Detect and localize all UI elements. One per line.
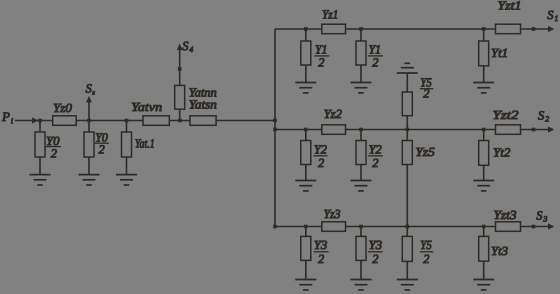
svg-text:Yatvn: Yatvn bbox=[131, 100, 162, 114]
svg-text:S: S bbox=[538, 109, 545, 123]
svg-text:Y3: Y3 bbox=[314, 238, 328, 252]
svg-text:Y2: Y2 bbox=[369, 142, 382, 156]
svg-text:Y3: Y3 bbox=[369, 238, 383, 252]
svg-text:4: 4 bbox=[189, 45, 193, 54]
svg-text:Y2: Y2 bbox=[314, 142, 327, 156]
svg-text:Y5: Y5 bbox=[420, 238, 432, 252]
svg-text:Yzt3: Yzt3 bbox=[494, 208, 517, 222]
svg-text:2: 2 bbox=[99, 142, 105, 156]
svg-text:2: 2 bbox=[423, 86, 429, 100]
svg-text:2: 2 bbox=[51, 147, 57, 161]
svg-text:Yzt2: Yzt2 bbox=[493, 108, 519, 122]
svg-text:1: 1 bbox=[554, 14, 558, 23]
svg-text:2: 2 bbox=[545, 115, 549, 124]
svg-text:Yzt1: Yzt1 bbox=[498, 0, 522, 13]
svg-text:Yat.1: Yat.1 bbox=[135, 137, 155, 151]
svg-text:S: S bbox=[547, 8, 554, 22]
svg-text:Yz0: Yz0 bbox=[53, 101, 73, 115]
svg-text:2: 2 bbox=[372, 56, 378, 70]
svg-text:Yatsn: Yatsn bbox=[189, 98, 217, 112]
svg-text:2: 2 bbox=[423, 252, 429, 266]
svg-text:S: S bbox=[536, 208, 543, 222]
svg-text:2: 2 bbox=[318, 56, 324, 70]
svg-text:Yt1: Yt1 bbox=[491, 46, 508, 60]
svg-text:P: P bbox=[1, 109, 10, 124]
svg-text:3: 3 bbox=[542, 214, 547, 223]
svg-text:Yz5: Yz5 bbox=[415, 145, 435, 159]
svg-text:Yt2: Yt2 bbox=[493, 146, 511, 160]
svg-text:Yz1: Yz1 bbox=[322, 7, 338, 21]
svg-text:Y1: Y1 bbox=[315, 42, 327, 56]
svg-text:Yt3: Yt3 bbox=[491, 244, 508, 258]
svg-text:Yz2: Yz2 bbox=[324, 107, 342, 121]
svg-text:Yz3: Yz3 bbox=[324, 207, 341, 221]
svg-text:2: 2 bbox=[318, 252, 324, 266]
svg-text:2: 2 bbox=[372, 156, 378, 170]
svg-text:2: 2 bbox=[372, 252, 378, 266]
svg-text:Y1: Y1 bbox=[369, 42, 381, 56]
svg-text:i: i bbox=[11, 116, 13, 125]
svg-text:s: s bbox=[92, 89, 95, 97]
svg-text:2: 2 bbox=[318, 156, 324, 170]
